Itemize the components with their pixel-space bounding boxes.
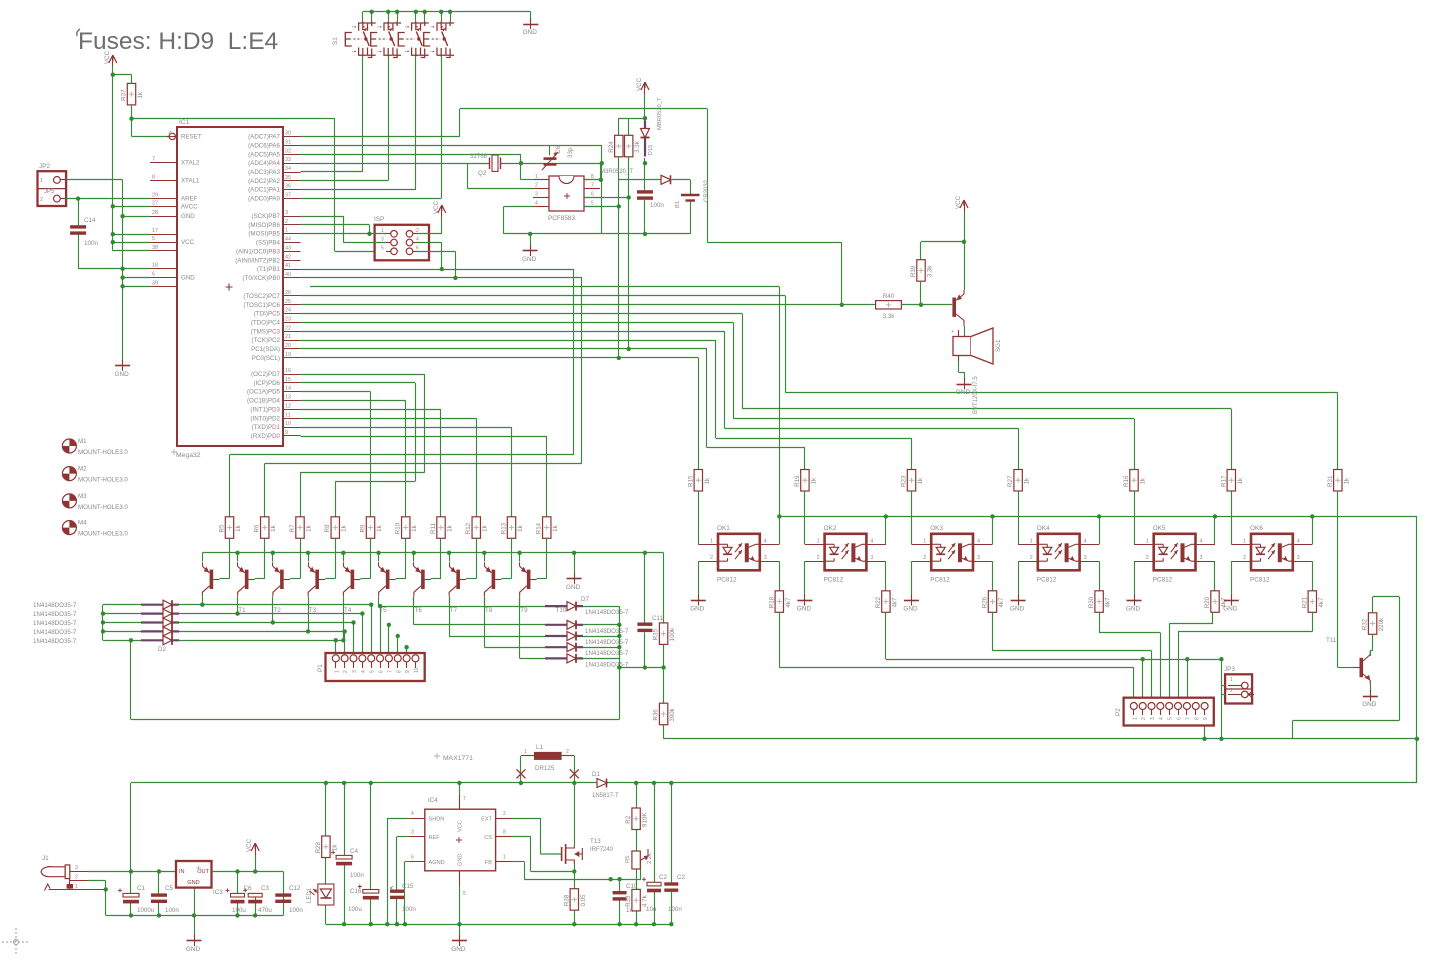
svg-text:100u: 100u [232,907,246,914]
svg-text:1N4148DO35-7: 1N4148DO35-7 [33,638,77,645]
svg-text:C11: C11 [652,615,664,622]
svg-text:5: 5 [370,670,376,673]
wire OK5 pin3 down [1214,561,1216,591]
svg-text:0.05: 0.05 [580,894,587,907]
label 1N4148 right row 4 [585,650,629,657]
resistor R33 4.7k [625,889,649,911]
svg-text:GND: GND [690,606,705,613]
svg-text:100n: 100n [289,907,303,914]
ic IC1 box [171,119,283,459]
svg-text:(AIN0/INT2)PB2: (AIN0/INT2)PB2 [235,257,280,264]
wire PC2 row to OK3 [301,340,912,469]
wire PA4 row crystal line [301,163,602,189]
wire right matrix rows [379,597,620,659]
junction AREF C14 [76,196,80,200]
wire R20 to P2 pin5 [1169,612,1213,702]
svg-text:1: 1 [40,178,43,184]
optocoupler OK5 PC812 [1134,525,1215,584]
junction FB [609,877,622,881]
svg-text:(ADC7)PA7: (ADC7)PA7 [248,134,280,141]
label C11 [652,615,664,622]
svg-text:IC1: IC1 [179,119,190,126]
svg-text:9: 9 [285,430,288,436]
svg-text:R2: R2 [625,815,632,823]
svg-text:REF: REF [429,835,441,841]
wire PD5 to R9 [301,392,371,517]
svg-text:2: 2 [1146,555,1149,561]
svg-text:2: 2 [343,670,349,673]
resistor R11 1k [430,517,454,539]
svg-text:32: 32 [285,148,291,154]
junctions right diode common [617,623,621,650]
label C12 [289,885,303,914]
svg-text:100n: 100n [668,906,682,913]
wire PCF scl to riser [584,197,629,199]
label D2 [158,646,166,653]
svg-text:22: 22 [285,325,291,331]
wire R18 to P2 pin1 [779,612,1134,702]
wire scl pullup [628,157,630,198]
ground OK6 [1223,595,1239,613]
svg-text:CS: CS [484,835,492,841]
svg-text:T11: T11 [1326,637,1337,644]
svg-text:(SS)PB4: (SS)PB4 [256,240,281,247]
label C10 [626,883,638,914]
svg-text:2.2k: 2.2k [647,853,653,864]
wire PCF sda to riser [584,206,619,208]
svg-text:100n: 100n [84,240,99,247]
wire C6r connections [237,872,239,916]
svg-text:R15: R15 [687,475,694,487]
svg-text:R5: R5 [219,524,226,532]
svg-text:2: 2 [535,183,538,189]
svg-text:C16: C16 [350,888,362,895]
ground OK5 [1126,595,1142,613]
svg-text:(ICP)PD6: (ICP)PD6 [254,380,281,387]
svg-text:100u: 100u [348,906,362,913]
svg-text:GND: GND [458,854,464,866]
svg-text:11: 11 [285,412,291,418]
svg-text:(INT0)PD2: (INT0)PD2 [250,415,280,422]
svg-text:1N4148DO35-7: 1N4148DO35-7 [33,629,77,636]
ground OK1 [690,595,706,613]
resistor R24 3.3k [608,135,623,157]
ic IC3 regulator [176,861,223,896]
svg-text:MOUNT-HOLE3.0: MOUNT-HOLE3.0 [78,504,128,511]
wire T12 collector to speaker [964,326,966,336]
svg-text:PC812: PC812 [1037,576,1057,583]
svg-text:1: 1 [334,670,340,673]
svg-text:MOUNT-HOLE3.0: MOUNT-HOLE3.0 [78,477,128,484]
wire R27 to OK4 pin1 [1018,491,1020,544]
resistor R35 100k [653,623,677,645]
svg-text:7: 7 [463,796,466,802]
svg-text:OK4: OK4 [1037,525,1050,532]
svg-text:M4: M4 [78,520,87,527]
junction pullups [617,195,631,208]
svg-text:2: 2 [923,555,926,561]
svg-text:24: 24 [285,308,291,314]
svg-text:1: 1 [1243,538,1246,544]
transistor T12 [952,290,964,326]
svg-text:100k: 100k [669,627,676,641]
diode D13 MBR0520LT [661,175,671,184]
optocoupler OK4 PC812 [1018,525,1099,584]
resistor R28 1k [315,836,339,858]
svg-text:OUT: OUT [197,869,209,875]
svg-text:T6: T6 [415,607,423,614]
svg-text:GND: GND [903,606,918,613]
svg-text:3.3k: 3.3k [634,140,641,153]
svg-text:1: 1 [381,228,384,234]
svg-text:FB: FB [485,860,492,866]
svg-text:1N5817-T: 1N5817-T [592,793,619,799]
label D1 [592,771,619,799]
svg-text:1: 1 [817,538,820,544]
wire L1 legs [521,756,575,783]
wire R38 bottom [574,910,576,924]
junction battery bottom [643,232,647,236]
svg-text:XTAL1: XTAL1 [181,177,200,184]
svg-text:C4: C4 [350,848,358,855]
wire T11 emitter [1370,685,1372,693]
wire PB1 row [301,269,442,271]
optocoupler OK2 PC812 [805,525,886,584]
capacitor C14 100n [70,225,86,235]
svg-text:T8: T8 [485,607,493,614]
svg-text:C12: C12 [289,885,301,892]
diode D9 1N4148 [545,632,583,641]
svg-text:(TMS)PC3: (TMS)PC3 [251,328,281,335]
switch S1 unit 2 [371,22,401,58]
svg-text:AVCC: AVCC [181,203,198,210]
resistor R15 1k above OK1 [687,470,711,492]
svg-text:40: 40 [285,272,291,278]
ground OK4 [1010,595,1026,613]
resistor R18 4k7 below OK1 [768,591,792,613]
svg-text:(MOSI)PB5: (MOSI)PB5 [248,231,280,238]
svg-text:GND: GND [1223,606,1238,613]
svg-text:1k: 1k [235,524,242,531]
wire supply rail 783 [131,782,1417,784]
resistor R27 1k above OK4 [1007,470,1031,492]
svg-text:GND: GND [181,275,195,282]
svg-text:4k7: 4k7 [1105,597,1112,608]
svg-text:30: 30 [285,131,291,137]
label 1N4148 row 3 [33,620,77,627]
svg-text:1N4148DO35-7: 1N4148DO35-7 [33,620,77,627]
wire OK1 pin4 to rail [779,516,781,544]
svg-text:R13: R13 [501,522,508,534]
wire OK2 pin3 down [885,561,887,591]
transistor T5 [343,562,360,596]
svg-text:M3R0520_T: M3R0520_T [600,169,633,175]
transistor T13 IRF7240 [540,838,613,864]
svg-text:R20: R20 [1204,596,1211,608]
ic IC1 left pins [150,130,202,286]
wire R19 to OK2 pin1 [804,491,806,544]
svg-text:PC1(SDA): PC1(SDA) [251,346,280,353]
wire JP3 net [1221,659,1225,739]
svg-text:1k: 1k [704,477,711,484]
wire PCF gnd pin4 [504,206,691,234]
transistor T6 [379,562,396,596]
svg-text:GND: GND [1126,606,1141,613]
svg-text:9: 9 [1203,717,1209,720]
svg-text:2: 2 [1030,555,1033,561]
wire PC1 row to OK2 [301,349,805,470]
svg-text:MOUNT-HOLE3.0: MOUNT-HOLE3.0 [78,531,128,538]
svg-text:3: 3 [381,237,384,243]
svg-text:B1: B1 [675,201,681,208]
wire bottom row mid [326,924,671,926]
svg-text:1: 1 [1146,538,1149,544]
svg-text:1000u: 1000u [137,907,155,914]
transistor T8 [449,562,466,596]
junctions row 667 [617,665,666,669]
svg-text:8: 8 [1194,717,1200,720]
junctions emitter bus [235,551,647,555]
wire JP2 pin1 to ground rail [66,180,150,361]
svg-text:390k: 390k [669,707,676,721]
wire OK2 pin2 to ground [804,561,806,596]
svg-text:GND: GND [186,946,201,953]
wire ISP pin2 vcc [418,217,442,234]
diode D1 1N5817 [597,779,607,788]
wire sda riser down [618,206,620,358]
svg-text:10: 10 [285,421,291,427]
diode D8 1N4148 [545,620,583,629]
svg-text:3: 3 [1084,555,1087,561]
svg-text:6: 6 [379,670,385,673]
svg-text:C2: C2 [677,874,685,881]
svg-text:3: 3 [411,830,414,836]
svg-text:GND: GND [1010,606,1025,613]
resistor R22 4k7 below OK2 [875,591,899,613]
resistor R21 4k7 below OK6 [1301,591,1325,613]
svg-text:C3: C3 [261,885,269,892]
svg-text:16: 16 [285,368,291,374]
trimpot R35b 2.2k [625,849,653,869]
capacitor battery 100n [637,190,653,200]
labels T8-T10 [485,607,567,614]
wire P2 pin9 down [1204,710,1206,739]
svg-text:1N4148DO35-7: 1N4148DO35-7 [585,639,629,646]
reset pin inversion circle [169,133,175,139]
ground T11 [1362,690,1378,708]
junctions vcc out [235,869,257,873]
svg-text:R32: R32 [1362,618,1369,630]
switch S1 unit 4 [424,22,454,58]
svg-text:36: 36 [285,184,291,190]
svg-text:2: 2 [416,228,419,234]
ic PCF8583 RTC [533,174,600,222]
wire PC0 row to OK1 [301,358,699,470]
label 1N4148 row 2 [33,611,77,618]
svg-text:(OC1B)PD4: (OC1B)PD4 [247,398,281,405]
capacitor C15 100n [390,890,404,900]
svg-text:17: 17 [152,228,158,234]
svg-text:(RXD)PD0: (RXD)PD0 [251,433,281,440]
svg-text:GND: GND [451,946,466,953]
svg-text:4: 4 [416,237,419,243]
svg-text:R7: R7 [289,524,296,532]
svg-text:MBR0520_T: MBR0520_T [657,97,663,130]
svg-text:100n: 100n [402,906,416,913]
label T11 [1326,637,1337,644]
svg-text:2: 2 [1243,555,1246,561]
svg-text:R9: R9 [360,524,367,532]
wire riser to R6 [265,278,582,517]
svg-text:R39: R39 [910,265,917,277]
label C7 [668,874,685,913]
junctions switch bus [370,10,453,14]
svg-text:GND: GND [523,29,538,36]
svg-text:PC812: PC812 [1250,576,1270,583]
mounting hole M2 [62,466,128,484]
wire P1 pins 6-10 up [381,606,416,658]
wire bottom row left [131,915,283,917]
svg-text:EXT: EXT [481,817,492,823]
label 1N4148 right row 5 [585,661,629,668]
label battery cap [650,202,664,209]
wire matrix bottom left return [131,640,620,719]
resistor R14 1k [536,517,560,539]
wire SHDN down [387,818,409,924]
svg-text:DR125: DR125 [535,765,555,772]
junction pb1 isp [440,267,444,271]
svg-text:R8: R8 [324,524,331,532]
diode D5 1N4148 [141,627,179,636]
svg-text:26: 26 [285,290,291,296]
mounting hole M3 [62,493,128,511]
svg-text:27: 27 [152,200,158,206]
junction cross marks L1 [517,769,579,778]
label 1N4148 row 5 [33,638,77,645]
svg-text:C6: C6 [555,146,562,154]
wire collectors T1-T5 to rows [203,605,344,641]
wire C3 connections [255,893,257,915]
svg-text:(OC2)PD7: (OC2)PD7 [251,371,280,378]
wire diode D13 battery [619,179,661,181]
wire PCF vdd pin8 [584,163,601,180]
svg-text:35: 35 [285,175,291,181]
svg-text:R6: R6 [254,524,261,532]
wire PC6 row to R40 [301,304,876,306]
ground emitter bus branch [566,573,582,591]
svg-text:GND: GND [956,389,971,396]
svg-text:(TOSC1)PC6: (TOSC1)PC6 [243,302,280,309]
svg-text:6: 6 [152,272,155,278]
wire riser to R5 [230,269,574,517]
svg-text:3: 3 [285,210,288,216]
svg-text:VCC: VCC [458,820,464,832]
wire to gnd symbol PCF [530,234,532,247]
wire resistor bottoms to bases [219,538,546,578]
label C6b [232,885,252,914]
svg-text:41: 41 [285,263,291,269]
wire R32 collector loop [1293,597,1400,739]
svg-text:7: 7 [1185,717,1191,720]
wire OK3 pin4 to rail [992,516,994,544]
wire R7 column [300,473,302,517]
svg-text:1: 1 [1230,677,1233,683]
svg-text:1k: 1k [552,524,559,531]
svg-text:M1: M1 [78,438,87,445]
svg-text:13: 13 [285,395,291,401]
wire P1 pins 1-5 up [336,605,372,655]
capacitor C3 470u [243,888,262,903]
svg-text:(AIN1/OC0)PB3: (AIN1/OC0)PB3 [236,248,281,255]
svg-text:4: 4 [169,130,172,136]
connector ISP [374,216,429,260]
wire R23 to OK3 pin1 [911,491,913,544]
wire OK3 pin2 to ground [911,561,913,596]
diode D2 1N4148 [141,600,179,609]
svg-text:R40: R40 [883,293,895,300]
label C1 [137,885,155,914]
svg-text:12: 12 [285,403,291,409]
svg-text:3: 3 [870,555,873,561]
wire bus row to opto rail [310,287,780,517]
crystal Q2 32768 [470,153,501,177]
label 1N4148 right row 3 [585,639,629,646]
svg-text:910K: 910K [642,812,649,827]
power symbol VCC at ISP [433,200,446,217]
svg-text:5: 5 [381,245,384,251]
junctions P1 pins 1-5 [334,603,374,643]
wire C7 branch [671,783,673,924]
svg-text:C15: C15 [402,883,414,890]
title text [77,28,278,55]
label C14 [84,217,99,247]
optocoupler OK3 PC812 [912,525,993,584]
junction riser to bus [617,347,631,360]
wire R37 to reset net [132,75,387,252]
wire vcc stub [255,855,257,872]
svg-text:9: 9 [405,670,411,673]
svg-text:R30: R30 [1088,596,1095,608]
wire PD0 to R14 [301,436,547,517]
wire FB node [512,860,642,880]
svg-text:2: 2 [75,875,78,881]
junction source CS [572,869,576,873]
svg-text:7: 7 [387,670,393,673]
svg-text:1N4148DO35-7: 1N4148DO35-7 [585,609,629,616]
wire collector drops short [203,597,520,605]
svg-text:6: 6 [416,245,419,251]
svg-text:5: 5 [1168,717,1174,720]
svg-text:(INT1)PD3: (INT1)PD3 [250,406,280,413]
ic IC1 right pins [235,131,300,440]
svg-text:OK6: OK6 [1250,525,1263,532]
svg-text:2: 2 [1141,717,1147,720]
svg-text:1k: 1k [482,524,489,531]
junctions on VCC vertical [111,73,115,245]
ground buzzer [956,378,972,396]
connector J1 power jack [41,855,105,891]
connector JP2 [38,163,67,206]
wire C2 branch [654,783,656,924]
label D7 [581,596,589,603]
svg-text:43: 43 [285,245,291,251]
wire vcc to T12 emitter [964,212,966,290]
wire C16 branch [370,783,372,924]
wire PA7 to buzzer loop [301,109,842,305]
label 1N4148 right row 1 [585,609,629,616]
wire C11 branch [644,553,646,668]
junction jack pin1 [104,887,108,891]
